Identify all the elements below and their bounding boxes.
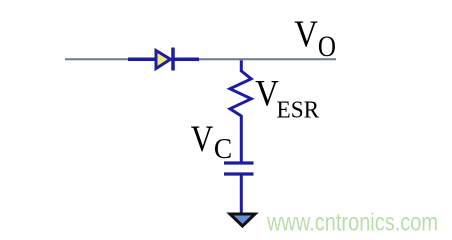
svg-text:V: V <box>255 72 279 113</box>
svg-text:V: V <box>294 12 318 55</box>
svg-text:ESR: ESR <box>277 97 320 124</box>
svg-text:V: V <box>191 120 214 160</box>
svg-text:C: C <box>214 133 232 164</box>
svg-text:www.cntronics.com: www.cntronics.com <box>266 208 438 236</box>
svg-text:O: O <box>318 30 336 62</box>
